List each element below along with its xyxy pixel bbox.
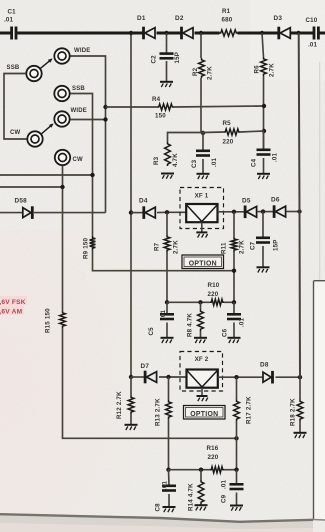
junction C7 node (261, 209, 265, 213)
wire C7 stub (262, 212, 264, 267)
svg-text:D3: D3 (274, 15, 283, 22)
wire C9 stub (236, 470, 238, 506)
bottom-right adjacent schematic frame (313, 281, 325, 520)
wire D58 line (0, 212, 106, 214)
junction XF1 output (232, 210, 236, 214)
svg-text:D8: D8 (260, 362, 269, 369)
wire W-line to SSB column (0, 174, 93, 176)
capacitor C4 .01 (251, 150, 279, 167)
junction column/bus (129, 31, 133, 35)
svg-text:R17 2.7K: R17 2.7K (246, 396, 253, 424)
svg-text:R11: R11 (221, 242, 228, 254)
wire SSB2 down (70, 94, 92, 237)
svg-text:R3: R3 (153, 156, 160, 165)
wire XF2 ground stub (201, 388, 203, 396)
ground R14 (195, 505, 208, 510)
switch contact CW 2 (55, 150, 83, 165)
crystal filter XF1 body (186, 204, 217, 222)
svg-text:R6: R6 (254, 65, 261, 74)
svg-text:4.7K: 4.7K (172, 153, 179, 167)
junction bus/right column (296, 31, 300, 35)
svg-text:220: 220 (208, 454, 219, 461)
ground R18 (294, 433, 307, 438)
wire R7 leads (166, 212, 168, 302)
svg-text:.01: .01 (308, 42, 318, 49)
ground C5 (161, 338, 174, 343)
switch contact WIDE 2 (54, 108, 87, 127)
wire D5-D6 (257, 211, 273, 213)
wire D8 to right column (276, 376, 301, 378)
svg-text:R12 2.7K: R12 2.7K (116, 391, 123, 419)
junction R9 line / R11 column (232, 269, 236, 273)
svg-text:CW: CW (73, 157, 84, 163)
ground C6 (228, 338, 241, 343)
wire R9 corner (93, 250, 235, 271)
resistor R15 150 (45, 308, 66, 333)
wire C6 stub (233, 302, 235, 337)
junction R4 line (103, 105, 107, 109)
junction XF2 input (166, 375, 170, 379)
svg-text:R13 2.7K: R13 2.7K (155, 398, 162, 426)
junction XF2 output (234, 375, 238, 379)
wire R4 line (106, 106, 265, 107)
svg-text:680: 680 (222, 17, 233, 24)
wire: top horizontal bus (0, 32, 325, 35)
switch contact SSB 2 (54, 86, 85, 101)
wiper arrow CW (42, 123, 54, 133)
svg-text:2.7K: 2.7K (239, 240, 246, 254)
svg-text:.01: .01 (239, 317, 246, 327)
svg-text:15P: 15P (174, 52, 181, 64)
svg-text:XF 2: XF 2 (195, 356, 209, 363)
svg-text:R15 150: R15 150 (45, 308, 52, 333)
capacitor C6 .01 (222, 314, 246, 337)
capacitor C9 .01 (221, 479, 244, 503)
diode D7 (141, 363, 157, 383)
svg-text:.01: .01 (272, 152, 279, 162)
svg-text:220: 220 (223, 139, 234, 146)
resistor R4 150 (152, 96, 174, 120)
svg-text:D4: D4 (139, 198, 148, 205)
svg-text:D5: D5 (242, 198, 251, 205)
wire C3 stub (202, 133, 204, 174)
diode D5 (242, 198, 257, 219)
svg-text:R8 4.7K: R8 4.7K (187, 313, 194, 337)
svg-text:C10: C10 (306, 17, 318, 24)
capacitor C8 .01 (155, 480, 177, 511)
ground R3 (161, 174, 174, 179)
svg-text:R1: R1 (222, 8, 231, 15)
wire R6 leads (262, 33, 264, 150)
svg-text:C6: C6 (222, 328, 229, 337)
ground C3 (197, 174, 210, 179)
junction R8 node (198, 300, 202, 304)
capacitor C10 .01 (306, 17, 319, 49)
svg-text:D6: D6 (271, 197, 280, 204)
resistor R13 2.7K (155, 398, 172, 426)
resistor R6 2.7K (254, 57, 276, 77)
wire C5 stub (166, 302, 168, 337)
diode D3 (274, 15, 291, 39)
svg-text:15P: 15P (273, 239, 280, 251)
page fold / bottom band (0, 514, 313, 532)
diode D2 (175, 15, 193, 39)
resistor R3 4.7K (153, 142, 179, 167)
junction XF1 input (165, 210, 169, 214)
diode D4 (139, 198, 155, 219)
resistor R7 2.7K (154, 235, 180, 254)
ground R12 (125, 425, 138, 430)
junction R16 left (166, 468, 170, 472)
wire WIDE1 to column (70, 56, 105, 213)
crystal filter XF2 dashed box (180, 352, 223, 392)
resistor R12 2.7K (116, 391, 134, 419)
svg-text:.01: .01 (160, 309, 167, 319)
svg-text:R9 150: R9 150 (83, 237, 90, 259)
svg-text:C1: C1 (8, 9, 17, 16)
svg-text:220: 220 (208, 291, 219, 298)
svg-text:WIDE: WIDE (71, 108, 87, 114)
ground R8 (194, 338, 207, 343)
svg-text:C7: C7 (250, 241, 257, 250)
resistor R10 220 (208, 282, 225, 305)
wire XF2 output (218, 376, 263, 378)
diode D1 (137, 15, 155, 39)
svg-text:.01: .01 (211, 157, 218, 167)
wire CW feed (0, 186, 63, 188)
svg-text:R14 4.7K: R14 4.7K (188, 483, 195, 511)
wire R15 line (63, 328, 237, 438)
junction R6/R5 line (262, 129, 266, 133)
ground C4 (257, 174, 270, 179)
svg-text:.01: .01 (162, 480, 169, 490)
capacitor C7 15P (250, 238, 280, 251)
junction R15 line / R17 column (234, 436, 238, 440)
ground C8 (163, 507, 176, 512)
svg-text:2.7K: 2.7K (269, 63, 276, 77)
wire C4 stub (263, 131, 265, 174)
resistor R11 2.7K (221, 237, 246, 254)
wire C8 stub (168, 470, 171, 507)
resistor R8 4.7K (187, 310, 204, 338)
junction R14 node (199, 468, 203, 472)
wire CW2 down (62, 166, 64, 311)
svg-text:7,6V FSK: 7,6V FSK (0, 299, 26, 306)
switch contact WIDE 1 (54, 48, 90, 64)
junction R16 right (234, 468, 238, 472)
svg-text:.01: .01 (4, 17, 14, 24)
wire WIDE2 to column (70, 119, 105, 121)
crystal filter XF1 dashed box (180, 188, 224, 229)
svg-text:CW: CW (10, 130, 21, 136)
diode D8 (260, 362, 273, 384)
junction CW column (60, 185, 64, 189)
wire R8 leads (200, 302, 202, 337)
diode D6 (271, 197, 286, 218)
svg-text:OPTION: OPTION (189, 261, 217, 268)
wire R3 top link (168, 133, 204, 143)
wire R13 leads (168, 377, 170, 470)
wire R14 leads (200, 470, 202, 506)
svg-text:D1: D1 (137, 15, 146, 22)
resistor R14 4.7K (188, 480, 204, 511)
svg-text:R2: R2 (192, 67, 199, 76)
wire R2 leads (201, 33, 203, 133)
wire R5 line (203, 131, 264, 133)
svg-text:SSB: SSB (72, 86, 85, 92)
wire R16 line (169, 469, 237, 471)
junction SSB column / W-line (90, 173, 94, 177)
crystal filter XF2 body (187, 370, 218, 388)
junction bus/R6 (260, 31, 264, 35)
svg-text:C8: C8 (155, 503, 162, 512)
wire XF1 ground stub (201, 222, 203, 232)
switch wiper CW (10, 130, 43, 147)
junction WIDE2 line (103, 117, 107, 121)
svg-text:150: 150 (155, 113, 166, 120)
svg-text:C4: C4 (251, 158, 258, 167)
ground C7 (257, 267, 270, 272)
svg-text:D58: D58 (15, 198, 28, 205)
ground C2 (160, 82, 173, 87)
wire R10 line (167, 301, 234, 303)
wire R11 leads (233, 212, 235, 302)
resistor R16 220 (207, 445, 225, 473)
capacitor C3 .01 (191, 151, 218, 168)
svg-text:.01: .01 (221, 479, 228, 489)
OPTION box XF2 (184, 406, 226, 420)
junction R10 right (232, 300, 236, 304)
svg-text:SSB: SSB (7, 65, 20, 71)
junction node R2-C3 (201, 131, 205, 135)
svg-text:2.7K: 2.7K (173, 240, 180, 254)
svg-text:D2: D2 (175, 15, 184, 22)
wiper arrow SSB (41, 58, 53, 68)
junction bus/R2 (199, 31, 203, 35)
wire SSB wiper loop (4, 74, 27, 140)
ground XF1 (196, 232, 207, 237)
svg-text:C3: C3 (191, 159, 198, 168)
resistor R9 150 (83, 236, 96, 259)
ground XF2 (197, 396, 208, 401)
junction right column D8 (298, 375, 302, 379)
resistor R1 680 (220, 8, 238, 36)
wire D7 line (131, 376, 187, 378)
OPTION box XF1 (182, 255, 224, 269)
svg-text:R10: R10 (208, 282, 220, 289)
junction R6/R4 line (262, 104, 266, 108)
wire R17 leads (236, 377, 238, 470)
wire XF1 output (218, 211, 245, 213)
ground C9 (230, 506, 243, 511)
wire C2 stub (166, 33, 168, 82)
svg-text:OPTION: OPTION (190, 411, 218, 418)
junction R10 left (165, 300, 169, 304)
diode D58 (15, 198, 33, 219)
svg-text:R18 2.7K: R18 2.7K (290, 398, 297, 426)
wire D4 line (131, 211, 186, 213)
svg-text:WIDE: WIDE (74, 48, 90, 54)
wire R12 leads (130, 377, 132, 425)
svg-text:R16: R16 (207, 445, 219, 452)
resistor R18 2.7K (290, 398, 303, 426)
junction right column D6 (297, 209, 301, 213)
junction D4 line / column (129, 210, 133, 214)
capacitor C1 .01 (4, 9, 16, 40)
page edge shadow right (319, 62, 321, 280)
svg-text:R7: R7 (154, 242, 161, 251)
wire bus column x131 (130, 33, 132, 377)
svg-text:C2: C2 (151, 55, 158, 64)
svg-text:7,6V AM: 7,6V AM (0, 309, 23, 316)
switch wiper SSB (7, 65, 42, 81)
svg-text:XF 1: XF 1 (195, 193, 209, 200)
svg-text:D7: D7 (141, 363, 150, 370)
voltage label 7.6V FSK (0, 296, 27, 306)
svg-text:R4: R4 (152, 96, 161, 103)
wire R18 leads (299, 377, 301, 432)
junction D7 line / column (129, 375, 133, 379)
wire right column (299, 33, 300, 377)
svg-text:C5: C5 (148, 327, 155, 336)
resistor R2 2.7K (192, 58, 214, 80)
capacitor C2 15P (151, 52, 182, 64)
svg-text:2.7K: 2.7K (207, 66, 214, 80)
voltage label 7.6V AM (0, 306, 24, 316)
svg-text:C9: C9 (221, 494, 228, 503)
wire D6 to right column (287, 211, 300, 213)
svg-text:R5: R5 (223, 120, 232, 127)
junction bus/D1-D2 (164, 31, 168, 35)
resistor R5 220 (223, 120, 241, 146)
capacitor C5 .01 (148, 309, 174, 335)
resistor R17 2.7K (234, 396, 253, 424)
